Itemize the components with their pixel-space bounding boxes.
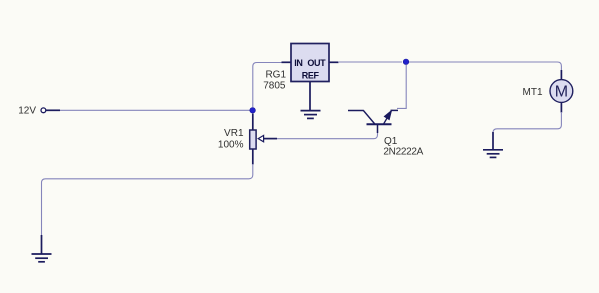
voltage regulator RG1 7805	[263, 44, 338, 111]
emitter pin	[391, 109, 399, 111]
motor MT1	[523, 70, 573, 113]
svg-text:M: M	[555, 84, 568, 101]
wire junction B to motor MT1	[409, 62, 561, 71]
svg-text:MT1: MT1	[523, 87, 543, 98]
svg-text:100%: 100%	[218, 140, 244, 151]
emitter slant	[383, 111, 391, 124]
wire junction B down to transistor emitter	[397, 65, 406, 109]
base stub	[377, 124, 379, 133]
ground (bottom-left)	[32, 235, 52, 262]
wire junction A up to regulator IN	[253, 63, 282, 108]
base bar	[367, 123, 392, 125]
ground (regulator REF)	[301, 111, 321, 119]
wire regulator OUT to junction B	[338, 61, 402, 63]
svg-text:OUT: OUT	[307, 58, 326, 68]
collector slant	[363, 111, 374, 125]
svg-text:RG1: RG1	[265, 70, 286, 81]
svg-text:IN: IN	[294, 58, 302, 68]
svg-text:7805: 7805	[263, 81, 286, 92]
power terminal 12V	[18, 106, 60, 117]
wire junction A down to potentiometer	[252, 113, 254, 119]
svg-text:12V: 12V	[18, 106, 36, 117]
wire 12V rail to junction	[60, 109, 250, 111]
svg-text:REF: REF	[302, 71, 320, 81]
svg-text:Q1: Q1	[384, 136, 398, 147]
junction A (12V / pot / regulator IN)	[250, 108, 256, 114]
wire pot wiper to transistor base	[277, 131, 378, 139]
emitter arrowhead	[384, 111, 391, 120]
svg-text:VR1: VR1	[224, 128, 244, 139]
transistor Q1 2N2222A	[348, 110, 424, 157]
collector lead	[348, 110, 364, 112]
wire pot bottom to bottom-left ground	[42, 164, 253, 237]
wire motor bottom to right ground	[493, 112, 561, 135]
svg-text:2N2222A: 2N2222A	[383, 147, 423, 158]
junction B (OUT / emitter / motor)	[403, 59, 409, 65]
potentiometer VR1 100%	[218, 114, 277, 165]
ground (right, motor return)	[483, 132, 503, 157]
